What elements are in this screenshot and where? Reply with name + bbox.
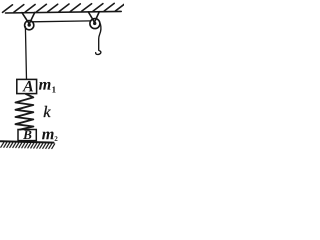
label k: [44, 106, 51, 117]
label B: [23, 130, 31, 139]
label m1: [39, 82, 56, 93]
pulley P1 wheel: [25, 21, 34, 30]
string from pulley P2 down with hook: [96, 24, 101, 54]
label A: [22, 81, 33, 92]
pulley P1 bracket: [22, 12, 35, 23]
label m2: [42, 132, 57, 141]
pulley P2 hub: [93, 22, 96, 25]
pulley P2 bracket: [88, 12, 99, 22]
ground hatching: [1, 143, 55, 149]
spring k: [16, 94, 34, 130]
ground line: [1, 141, 54, 142]
block A: [17, 79, 37, 93]
pulley P1 hub: [28, 23, 31, 26]
string from pulley P1 down to block A: [25, 27, 26, 80]
pulley P2 wheel: [90, 19, 100, 29]
ceiling line: [6, 11, 122, 13]
string between pulleys: [32, 20, 92, 23]
ceiling hatching: [3, 3, 126, 12]
block B: [18, 130, 36, 141]
